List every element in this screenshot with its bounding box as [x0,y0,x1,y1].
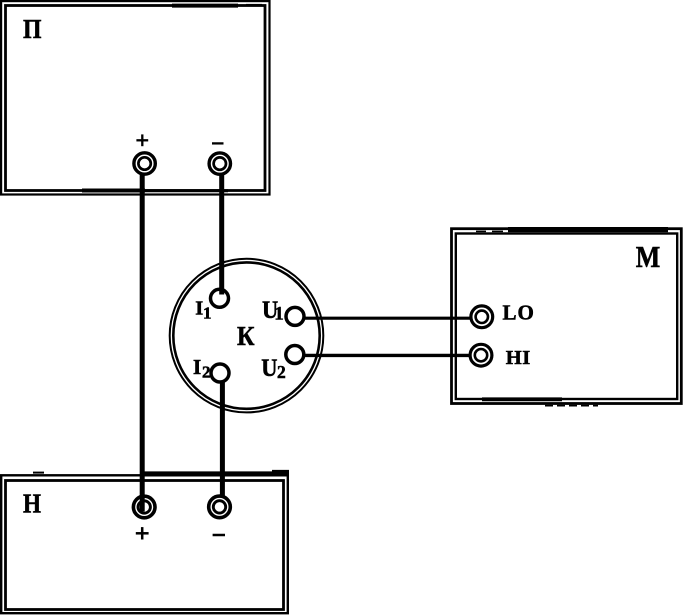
svg-text:Н: Н [23,489,41,519]
svg-text:М: М [636,239,661,274]
svg-text:LO: LO [503,301,535,325]
svg-text:HI: HI [506,347,531,369]
svg-text:I: I [193,355,201,379]
svg-text:2: 2 [202,362,211,381]
svg-text:П: П [23,14,42,44]
svg-text:К: К [237,321,255,351]
svg-text:1: 1 [203,304,212,323]
svg-text:1: 1 [274,303,284,324]
svg-text:U: U [261,355,277,382]
svg-text:2: 2 [277,362,286,382]
